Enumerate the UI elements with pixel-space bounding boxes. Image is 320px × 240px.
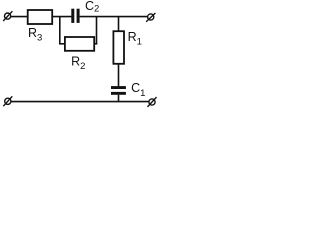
resistor R3 (28, 10, 53, 24)
ground terminal bottom-right (148, 97, 157, 107)
svg-text:C1: C1 (131, 81, 145, 99)
ground terminal bottom-left (3, 96, 12, 106)
wire node B down to R1 (118, 17, 120, 32)
wire stub to R2 left lead (59, 43, 65, 45)
wire C1 to bottom rail (118, 95, 120, 102)
resistor R2 (65, 37, 94, 51)
wire R3 to C2 (53, 16, 72, 18)
wire node A down to R2 left (59, 17, 61, 44)
svg-text:C2: C2 (85, 0, 99, 15)
output terminal top-right (146, 13, 155, 22)
svg-text:R1: R1 (128, 30, 142, 47)
capacitor C1 plate top (111, 86, 126, 89)
wire terminal to R3 (11, 16, 28, 18)
svg-text:R2: R2 (71, 55, 85, 72)
resistor R1 (113, 31, 124, 64)
wire C2 to output terminal (80, 16, 148, 18)
svg-text:R3: R3 (28, 26, 42, 43)
wire R1 to C1 (118, 64, 120, 87)
bottom rail wire (11, 101, 149, 103)
capacitor C2 plate right (77, 9, 80, 23)
wire R2 right up to node B (96, 17, 98, 45)
wire stub R2 right lead (94, 43, 97, 45)
capacitor C2 plate left (71, 9, 74, 23)
capacitor C1 plate bottom (111, 92, 126, 95)
input terminal top-left (3, 11, 12, 21)
